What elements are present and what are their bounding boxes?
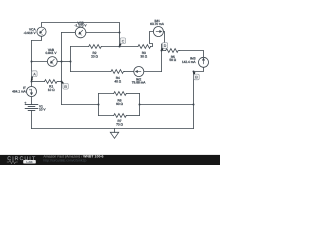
wire VAB right xyxy=(57,61,70,63)
node B flag (bottom right) xyxy=(193,73,196,75)
voltmeter VCB xyxy=(75,27,86,38)
meter needles xyxy=(29,29,204,95)
wire to parallel box xyxy=(62,104,99,106)
junction parallel box right exit xyxy=(139,104,141,106)
svg-text:10 Ω: 10 Ω xyxy=(48,88,55,92)
ammeter IM3 xyxy=(199,57,209,67)
resistor R6 zigzag xyxy=(114,92,127,96)
svg-text:90 Ω: 90 Ω xyxy=(116,102,123,106)
svg-text:http://circuitlab.com/c/5mk2p: http://circuitlab.com/c/5mk2p xyxy=(43,158,86,162)
needle IM1 right xyxy=(156,31,160,33)
svg-text:0.841 V: 0.841 V xyxy=(46,51,58,55)
svg-text:B: B xyxy=(195,76,198,80)
wire bottom loop rail xyxy=(71,71,112,73)
svg-text:464.1 mA: 464.1 mA xyxy=(12,89,27,93)
needle IM3 up xyxy=(203,60,205,64)
junction mid vertical x VAB wire xyxy=(61,61,63,63)
node flags xyxy=(31,38,199,89)
junction left vertical x VAB wire xyxy=(31,61,33,63)
needle VCB xyxy=(80,30,83,33)
resistor R3 zigzag xyxy=(138,45,151,49)
resistor R4 zigzag xyxy=(111,70,125,74)
wire node D to R5 xyxy=(162,50,166,52)
battery V1 plates xyxy=(25,104,38,106)
svg-text:C: C xyxy=(122,39,125,43)
resistor R7 zigzag xyxy=(114,114,127,118)
svg-text:142.4 mA: 142.4 mA xyxy=(182,60,197,64)
needle VAB xyxy=(52,59,55,62)
wire VCB left xyxy=(62,32,76,34)
logo waveform xyxy=(7,160,18,163)
svg-text:10 V: 10 V xyxy=(39,107,46,111)
junction node A on left vertical xyxy=(31,81,33,83)
wire top rail left xyxy=(71,46,89,48)
wire top rail right into IM1 left jog xyxy=(150,32,154,47)
svg-text:-0.916 V: -0.916 V xyxy=(24,31,37,35)
footer bar xyxy=(0,155,220,165)
svg-text:30 Ω: 30 Ω xyxy=(140,55,147,59)
needle IM2 left xyxy=(137,71,141,73)
needle IT down xyxy=(31,89,33,93)
svg-text:20 Ω: 20 Ω xyxy=(91,55,98,59)
wire R1 right xyxy=(58,81,62,83)
wire parallel box right edge xyxy=(139,94,141,116)
wire top loop xyxy=(42,23,120,47)
resistor R1 zigzag xyxy=(45,80,59,84)
ammeter IT xyxy=(27,87,37,97)
svg-text:79.88 mA: 79.88 mA xyxy=(132,81,147,85)
svg-text:50 Ω: 50 Ω xyxy=(169,58,176,62)
node B flag (mid) xyxy=(62,82,63,84)
wire ground rail xyxy=(32,128,194,130)
svg-text:63.70 mA: 63.70 mA xyxy=(150,22,165,26)
wire VCB right xyxy=(86,32,120,34)
junction node C on top rail xyxy=(119,46,121,48)
wire VCA bottom corner xyxy=(32,36,42,40)
wire rect left edge xyxy=(70,47,72,72)
wire IM1 right jog down to node D xyxy=(162,32,165,51)
resistor R5 zigzag xyxy=(166,49,180,53)
wire IT to battery xyxy=(31,97,33,105)
svg-text:LAB: LAB xyxy=(26,160,33,164)
meter circles xyxy=(27,27,209,97)
wire parallel box top leads xyxy=(99,93,114,95)
wire box exit to right vertical xyxy=(140,104,194,106)
svg-text:B: B xyxy=(64,85,67,89)
node D flag (top right) xyxy=(161,48,164,50)
junction IM3 bottom corner xyxy=(193,71,195,73)
resistor R2 zigzag xyxy=(89,45,102,49)
logo LAB box xyxy=(23,160,36,164)
wire VAB left xyxy=(32,61,48,63)
wire R1 left xyxy=(32,81,45,83)
junction parallel box left entry xyxy=(98,104,100,106)
ammeter IM2 xyxy=(134,67,144,77)
junction loop left edge entry xyxy=(70,61,72,63)
svg-text:+: + xyxy=(24,101,26,105)
ground symbol xyxy=(114,129,116,133)
ammeter IM1 xyxy=(153,27,163,37)
wire left vertical xyxy=(31,41,33,87)
svg-text:-1.270 V: -1.270 V xyxy=(74,24,87,28)
wire mid vertical xyxy=(61,33,63,105)
svg-text:40 Ω: 40 Ω xyxy=(114,79,121,83)
wire node D down xyxy=(161,51,163,72)
junction VCB wire x top riser xyxy=(119,32,121,34)
wire R5 to IM3 top xyxy=(180,51,204,58)
wire parallel box left edge xyxy=(98,94,100,116)
junction node B mid vertical x R1 xyxy=(61,81,63,83)
svg-text:D: D xyxy=(164,44,167,48)
svg-text:70 Ω: 70 Ω xyxy=(116,122,123,126)
wire IM3 bottom corner down right vertical xyxy=(194,67,204,128)
node C flag (top rail) xyxy=(119,44,122,46)
wire battery bottom xyxy=(31,111,33,129)
junction box exit wire x right vertical xyxy=(193,104,195,106)
needle VCA xyxy=(41,29,44,32)
svg-text:A: A xyxy=(33,72,36,76)
junction node D xyxy=(161,50,163,52)
voltmeter VAB xyxy=(47,57,57,67)
wire parallel box bottom leads xyxy=(99,115,114,117)
node A flag xyxy=(31,76,34,80)
voltmeter VCA xyxy=(37,27,46,36)
wire top rail mid xyxy=(101,46,138,48)
